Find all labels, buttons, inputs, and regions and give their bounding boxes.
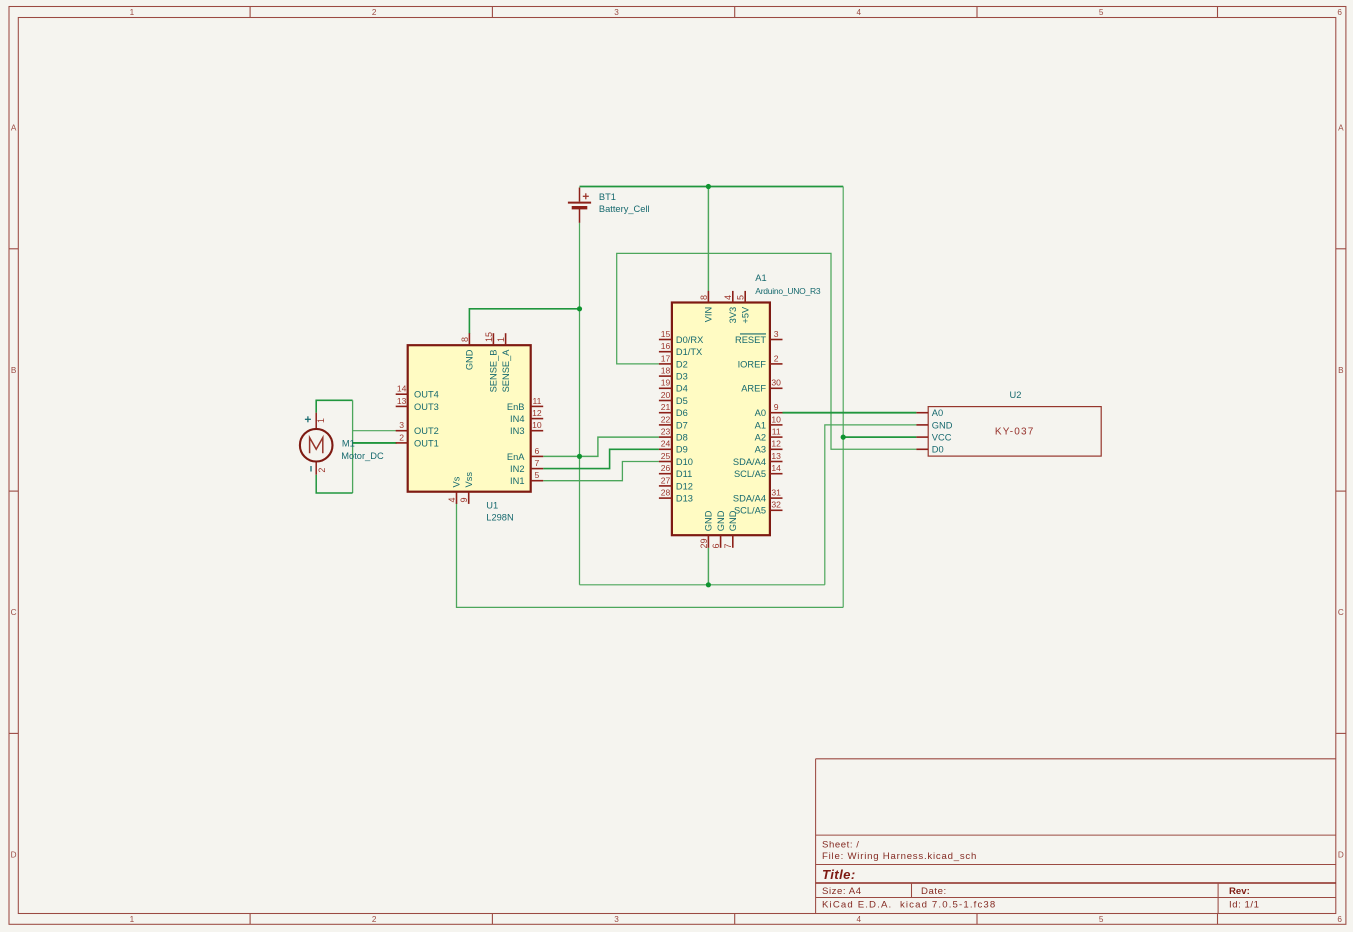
svg-text:1: 1 bbox=[496, 337, 506, 342]
svg-text:VIN: VIN bbox=[704, 307, 714, 323]
svg-text:GND: GND bbox=[704, 510, 714, 531]
svg-text:22: 22 bbox=[661, 414, 671, 424]
svg-text:GND: GND bbox=[716, 510, 726, 531]
svg-text:D8: D8 bbox=[676, 433, 688, 443]
svg-text:SCL/A5: SCL/A5 bbox=[734, 469, 766, 479]
svg-text:SCL/A5: SCL/A5 bbox=[734, 506, 766, 516]
svg-text:21: 21 bbox=[661, 402, 671, 412]
svg-text:RESET: RESET bbox=[735, 335, 766, 345]
svg-text:31: 31 bbox=[771, 488, 781, 498]
svg-text:Battery_Cell: Battery_Cell bbox=[599, 204, 650, 214]
svg-text:3: 3 bbox=[399, 420, 404, 430]
svg-text:6: 6 bbox=[535, 446, 540, 456]
svg-text:D3: D3 bbox=[676, 372, 688, 382]
svg-text:Id: 1/1: Id: 1/1 bbox=[1229, 900, 1260, 911]
svg-text:B: B bbox=[1338, 366, 1344, 375]
svg-text:12: 12 bbox=[532, 408, 542, 418]
svg-text:D13: D13 bbox=[676, 494, 693, 504]
svg-text:D4: D4 bbox=[676, 384, 688, 394]
svg-text:File: Wiring Harness.kicad_sch: File: Wiring Harness.kicad_sch bbox=[822, 851, 977, 862]
svg-text:25: 25 bbox=[661, 451, 671, 461]
svg-text:1: 1 bbox=[130, 8, 135, 17]
svg-text:L298N: L298N bbox=[486, 513, 513, 523]
svg-text:IN4: IN4 bbox=[510, 414, 524, 424]
svg-text:2: 2 bbox=[372, 915, 377, 924]
svg-text:17: 17 bbox=[661, 353, 671, 363]
svg-text:M1: M1 bbox=[342, 439, 355, 449]
svg-text:5: 5 bbox=[1099, 915, 1104, 924]
svg-text:8: 8 bbox=[699, 295, 709, 300]
svg-text:2: 2 bbox=[372, 8, 377, 17]
svg-text:GND: GND bbox=[932, 420, 953, 430]
svg-text:24: 24 bbox=[661, 439, 671, 449]
svg-text:9: 9 bbox=[774, 402, 779, 412]
svg-text:26: 26 bbox=[661, 463, 671, 473]
svg-text:8: 8 bbox=[460, 337, 470, 342]
svg-text:4: 4 bbox=[723, 295, 733, 300]
svg-text:13: 13 bbox=[771, 451, 781, 461]
svg-text:14: 14 bbox=[397, 384, 407, 394]
svg-text:5: 5 bbox=[535, 470, 540, 480]
svg-text:15: 15 bbox=[661, 329, 671, 339]
svg-text:3: 3 bbox=[614, 8, 619, 17]
svg-text:C: C bbox=[1338, 608, 1344, 617]
svg-text:3: 3 bbox=[774, 329, 779, 339]
svg-text:D: D bbox=[11, 851, 17, 860]
svg-text:A2: A2 bbox=[755, 433, 766, 443]
svg-text:7: 7 bbox=[535, 458, 540, 468]
svg-text:EnB: EnB bbox=[507, 402, 525, 412]
svg-text:D7: D7 bbox=[676, 420, 688, 430]
svg-text:5: 5 bbox=[1099, 8, 1104, 17]
svg-text:10: 10 bbox=[771, 414, 781, 424]
svg-text:19: 19 bbox=[661, 378, 671, 388]
svg-text:IOREF: IOREF bbox=[738, 359, 767, 369]
svg-text:D9: D9 bbox=[676, 445, 688, 455]
svg-text:IN3: IN3 bbox=[510, 426, 524, 436]
svg-text:18: 18 bbox=[661, 366, 671, 376]
svg-text:D5: D5 bbox=[676, 396, 688, 406]
svg-text:10: 10 bbox=[532, 420, 542, 430]
svg-text:VCC: VCC bbox=[932, 433, 952, 443]
svg-text:SDA/A4: SDA/A4 bbox=[733, 494, 766, 504]
svg-text:A: A bbox=[11, 124, 17, 133]
svg-text:6: 6 bbox=[1337, 915, 1342, 924]
svg-text:2: 2 bbox=[399, 432, 404, 442]
svg-text:29: 29 bbox=[699, 538, 709, 548]
svg-text:KiCad E.D.A. kicad 7.0.5-1.fc: KiCad E.D.A. kicad 7.0.5-1.fc38 bbox=[822, 900, 996, 911]
svg-text:AREF: AREF bbox=[741, 384, 766, 394]
svg-text:27: 27 bbox=[661, 475, 671, 485]
svg-text:GND: GND bbox=[728, 510, 738, 531]
svg-text:U1: U1 bbox=[486, 500, 498, 510]
svg-text:20: 20 bbox=[661, 390, 671, 400]
svg-text:U2: U2 bbox=[1010, 390, 1022, 400]
svg-text:2: 2 bbox=[774, 353, 779, 363]
svg-text:3V3: 3V3 bbox=[728, 307, 738, 324]
svg-text:28: 28 bbox=[661, 488, 671, 498]
svg-text:4: 4 bbox=[447, 497, 457, 502]
svg-text:1: 1 bbox=[130, 915, 135, 924]
svg-text:16: 16 bbox=[661, 341, 671, 351]
svg-text:1: 1 bbox=[316, 418, 326, 423]
svg-text:SENSE_A: SENSE_A bbox=[501, 349, 511, 393]
svg-text:14: 14 bbox=[771, 463, 781, 473]
svg-text:A1: A1 bbox=[755, 420, 766, 430]
svg-text:11: 11 bbox=[532, 396, 541, 406]
svg-text:C: C bbox=[11, 608, 17, 617]
svg-text:Sheet: /: Sheet: / bbox=[822, 840, 859, 851]
svg-text:IN1: IN1 bbox=[510, 476, 524, 486]
svg-text:D2: D2 bbox=[676, 359, 688, 369]
svg-text:OUT4: OUT4 bbox=[414, 390, 439, 400]
svg-text:A0: A0 bbox=[755, 408, 766, 418]
svg-text:KY-037: KY-037 bbox=[995, 427, 1035, 438]
svg-text:Vs: Vs bbox=[452, 476, 462, 487]
svg-text:A3: A3 bbox=[755, 445, 766, 455]
svg-text:D1/TX: D1/TX bbox=[676, 347, 702, 357]
svg-text:D6: D6 bbox=[676, 408, 688, 418]
svg-text:A: A bbox=[1338, 124, 1344, 133]
svg-text:30: 30 bbox=[771, 378, 781, 388]
svg-text:D0/RX: D0/RX bbox=[676, 335, 703, 345]
svg-text:SENSE_B: SENSE_B bbox=[489, 350, 499, 393]
svg-text:6: 6 bbox=[711, 543, 721, 548]
svg-text:23: 23 bbox=[661, 427, 671, 437]
svg-text:SDA/A4: SDA/A4 bbox=[733, 457, 766, 467]
svg-text:A0: A0 bbox=[932, 408, 943, 418]
svg-text:D10: D10 bbox=[676, 457, 693, 467]
svg-text:7: 7 bbox=[723, 543, 733, 548]
svg-text:3: 3 bbox=[614, 915, 619, 924]
svg-text:+5V: +5V bbox=[740, 306, 750, 324]
svg-text:32: 32 bbox=[771, 500, 781, 510]
svg-text:D: D bbox=[1338, 851, 1344, 860]
svg-text:2: 2 bbox=[317, 468, 327, 473]
svg-text:6: 6 bbox=[1337, 8, 1342, 17]
svg-text:9: 9 bbox=[459, 497, 469, 502]
svg-text:GND: GND bbox=[465, 349, 475, 370]
svg-text:EnA: EnA bbox=[507, 452, 525, 462]
svg-text:11: 11 bbox=[772, 427, 781, 437]
svg-text:OUT2: OUT2 bbox=[414, 426, 439, 436]
svg-text:D12: D12 bbox=[676, 481, 693, 491]
svg-text:OUT3: OUT3 bbox=[414, 402, 439, 412]
svg-text:D11: D11 bbox=[676, 469, 692, 479]
svg-text:Rev:: Rev: bbox=[1229, 886, 1250, 897]
svg-text:Date:: Date: bbox=[921, 886, 947, 897]
svg-text:A1: A1 bbox=[755, 273, 766, 283]
svg-text:12: 12 bbox=[771, 439, 781, 449]
svg-text:BT1: BT1 bbox=[599, 192, 616, 202]
svg-text:Title:: Title: bbox=[822, 867, 856, 882]
svg-text:15: 15 bbox=[484, 332, 494, 342]
svg-text:Size: A4: Size: A4 bbox=[822, 886, 862, 897]
svg-text:Motor_DC: Motor_DC bbox=[341, 451, 384, 461]
svg-text:B: B bbox=[11, 366, 17, 375]
svg-text:5: 5 bbox=[736, 295, 746, 300]
svg-text:OUT1: OUT1 bbox=[414, 438, 439, 448]
svg-text:Arduino_UNO_R3: Arduino_UNO_R3 bbox=[755, 286, 821, 296]
svg-text:IN2: IN2 bbox=[510, 464, 524, 474]
svg-text:4: 4 bbox=[857, 8, 862, 17]
svg-text:Vss: Vss bbox=[464, 472, 474, 488]
svg-text:13: 13 bbox=[397, 396, 407, 406]
svg-text:4: 4 bbox=[857, 915, 862, 924]
svg-text:D0: D0 bbox=[932, 445, 944, 455]
